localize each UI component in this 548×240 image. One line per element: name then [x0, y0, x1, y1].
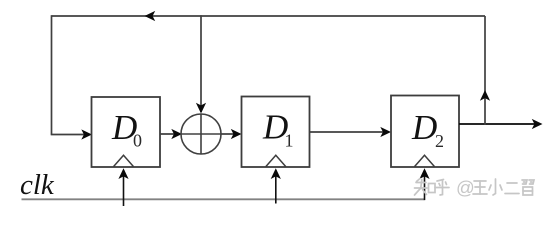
arrowhead left on top feedback wire: [145, 11, 156, 21]
watermark char 二: [505, 183, 519, 194]
wire feedback top horizontal: [52, 15, 486, 17]
svg-text:D: D: [411, 108, 437, 147]
wire feedback right vertical: [484, 16, 486, 125]
wire into D0 input: [51, 134, 90, 136]
watermark char 乎: [435, 180, 449, 196]
XOR plus horizontal bar: [181, 133, 221, 135]
wire clock feed D1: [275, 170, 277, 204]
watermark char 知: [415, 179, 436, 196]
D flip-flop D2 box: [391, 96, 459, 168]
svg-text:0: 0: [133, 130, 142, 150]
arrowhead into D1: [231, 129, 242, 139]
arrowhead up on feedback vertical: [480, 90, 490, 101]
wire D0 output to XOR: [160, 133, 179, 135]
arrowhead up into D0 clock: [118, 168, 128, 179]
wire XOR to D1: [221, 133, 239, 135]
wire feedback left vertical: [51, 15, 53, 134]
arrowhead up into D2 clock: [419, 168, 429, 179]
arrowhead into D0: [81, 129, 92, 139]
arrowhead into D2: [380, 127, 391, 137]
clock triangle of D2: [415, 155, 435, 166]
watermark char 習: [522, 180, 534, 195]
svg-text:1: 1: [285, 130, 294, 150]
XOR gate circle: [181, 114, 221, 154]
arrowhead output right: [532, 119, 543, 129]
arrowhead down into XOR top: [196, 103, 206, 114]
wire D1 to D2: [310, 131, 390, 133]
wire clock line: [22, 198, 425, 200]
svg-text:clk: clk: [20, 169, 55, 201]
D flip-flop D0 box: [92, 97, 161, 167]
wire clock feed D0: [123, 170, 125, 206]
svg-text:2: 2: [435, 131, 444, 151]
XOR plus vertical bar: [200, 114, 202, 154]
wire feedback tap down into XOR: [200, 15, 202, 112]
wire clock feed D2: [424, 170, 426, 200]
D flip-flop D1 box: [242, 97, 310, 168]
wire D2 output to the right: [459, 123, 540, 125]
watermark char 王: [473, 181, 487, 194]
watermark 知乎 @王小二習: [415, 177, 535, 198]
clock triangle of D0: [114, 155, 134, 166]
svg-text:@: @: [456, 177, 475, 198]
arrowhead into XOR left: [171, 129, 182, 139]
arrowhead up into D1 clock: [271, 168, 281, 179]
clock triangle of D1: [266, 155, 286, 166]
watermark char 小: [489, 179, 502, 195]
